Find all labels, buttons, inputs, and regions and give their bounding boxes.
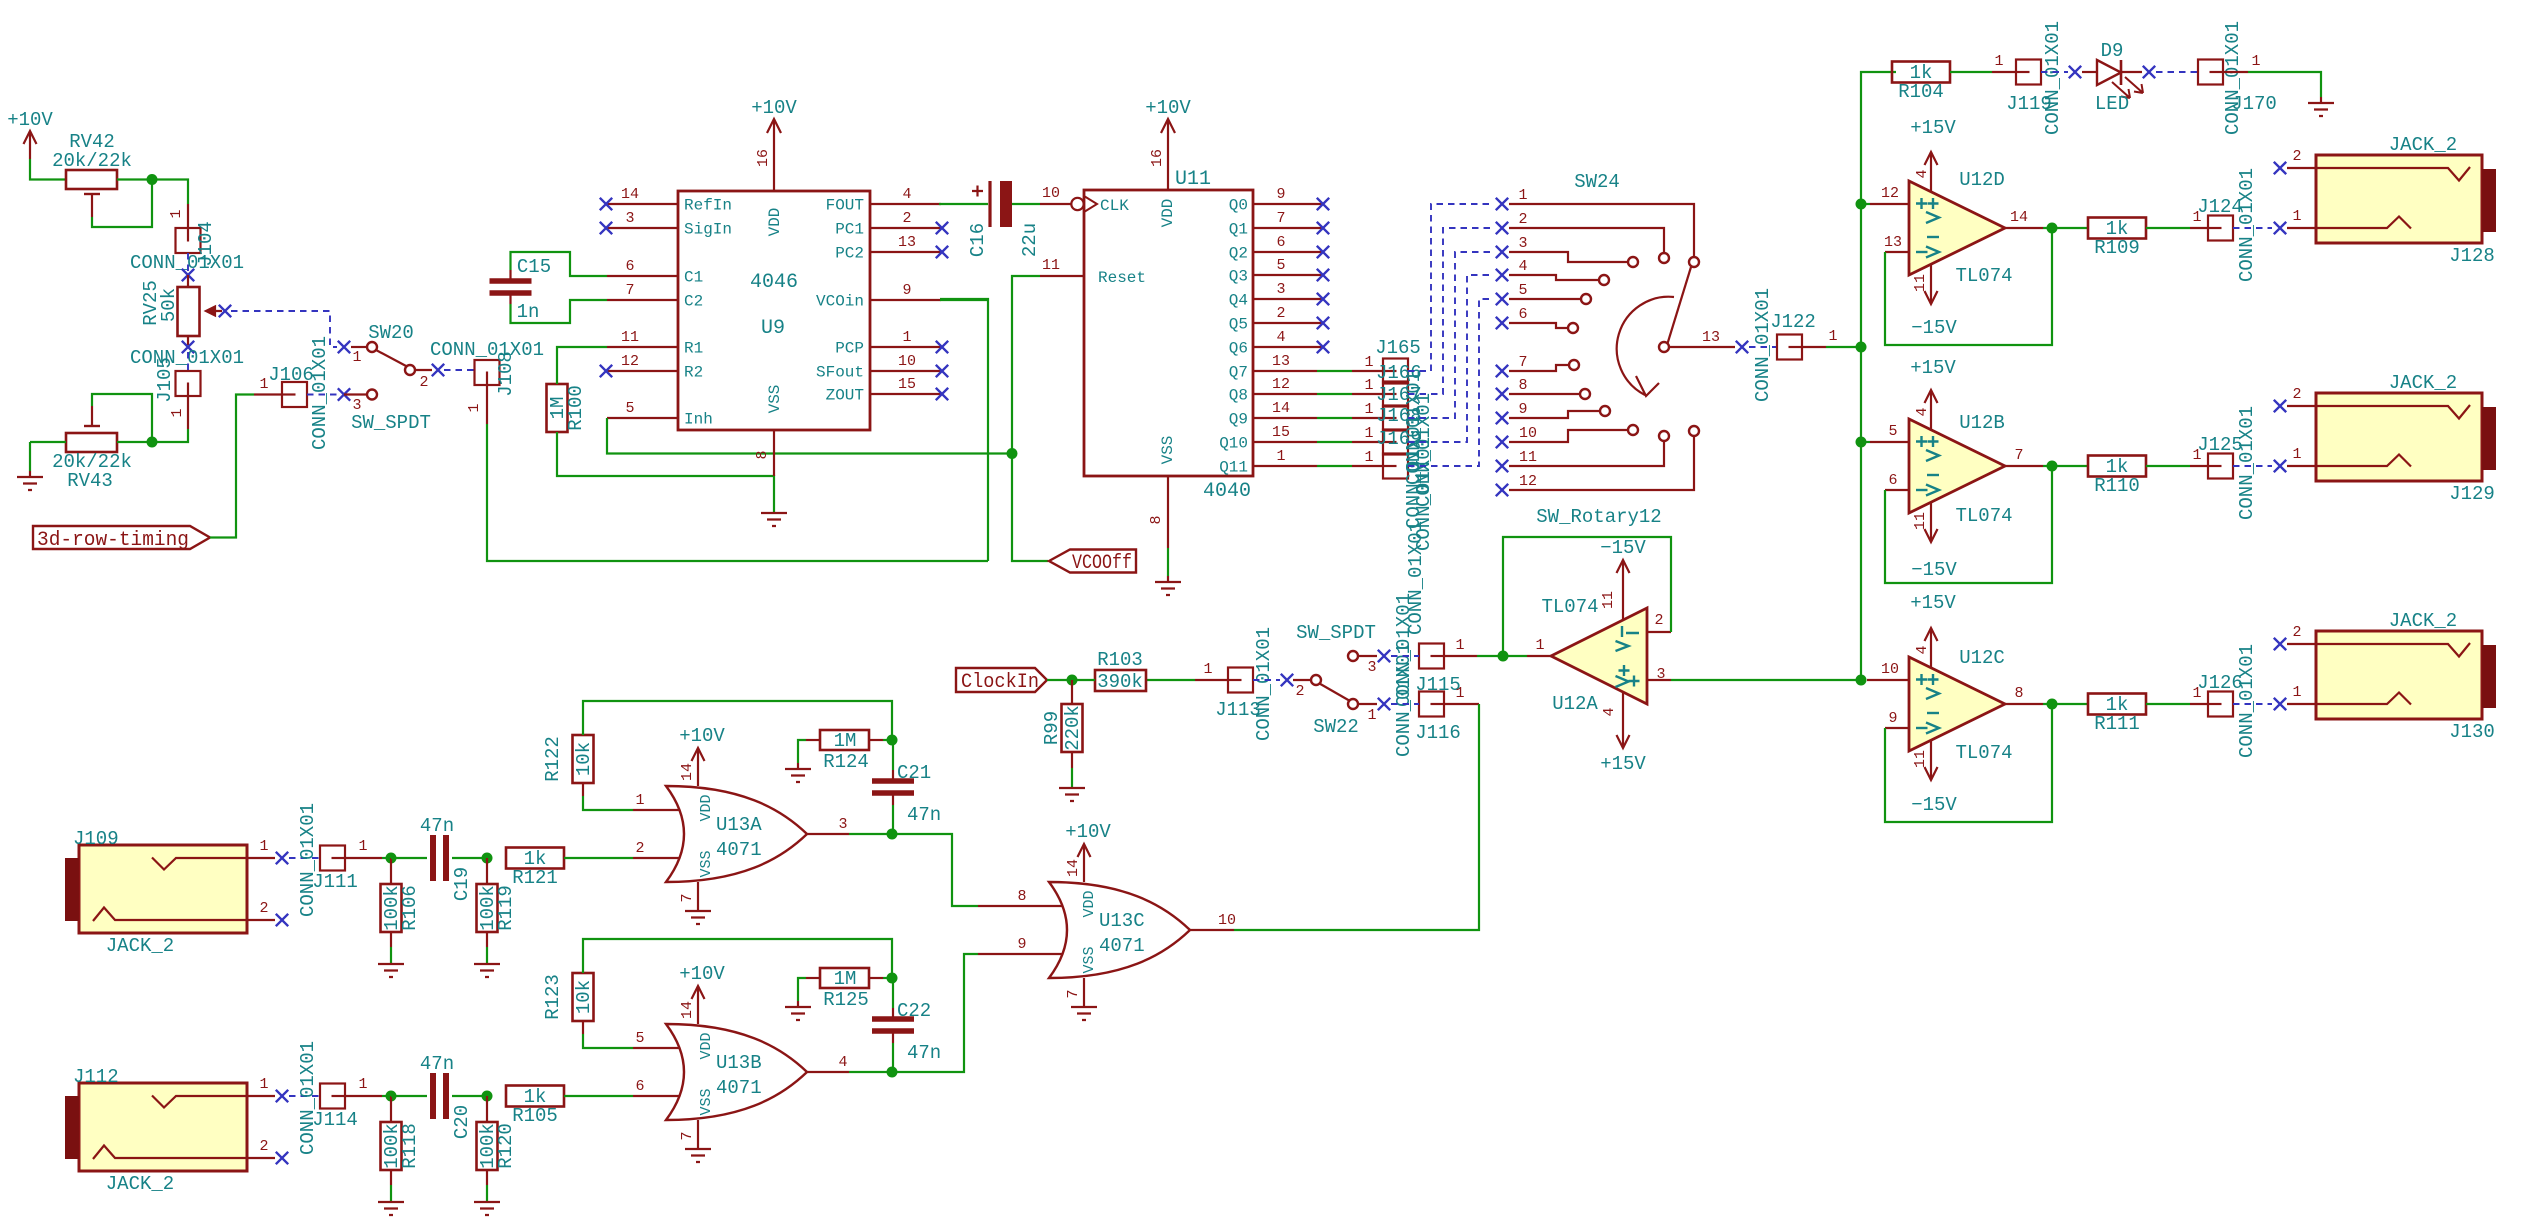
op-amp U12C [1909, 657, 2005, 751]
svg-text:R122: R122 [542, 736, 564, 782]
svg-text:1: 1 [1994, 53, 2003, 70]
connector J167 [1383, 406, 1408, 431]
diode D9 LED [2082, 71, 2097, 73]
svg-text:10k: 10k [573, 980, 595, 1014]
wire [798, 978, 806, 1001]
svg-text:−15V: −15V [1911, 317, 1957, 339]
IC U11 4040 [1084, 190, 1253, 476]
connector J122 [1749, 346, 1777, 348]
svg-text:+10V: +10V [679, 725, 725, 747]
wire [1012, 203, 1040, 205]
SW24 position 9 [1496, 412, 1508, 424]
U11 pin 10 CLK [1040, 203, 1071, 205]
svg-text:14: 14 [1272, 400, 1290, 417]
junction [2047, 699, 2058, 710]
svg-text:ClockIn: ClockIn [961, 671, 1039, 694]
U12D feedback wire [1885, 228, 2052, 345]
dashed [1391, 703, 1419, 705]
svg-text:R104: R104 [1898, 81, 1944, 103]
connector J114 [289, 1095, 320, 1097]
junction [887, 735, 898, 746]
svg-text:CONN_01X01: CONN_01X01 [1752, 288, 1774, 402]
U12A pin 2 -in [1647, 631, 1671, 633]
svg-text:JACK_2: JACK_2 [106, 1173, 174, 1195]
SW24 position 4 [1496, 269, 1508, 281]
svg-text:SigIn: SigIn [684, 221, 732, 239]
U12C pin 11 -15V [1930, 740, 1932, 780]
resistor R105 [506, 1086, 564, 1107]
svg-text:U12C: U12C [1959, 647, 2005, 669]
dashed net [1408, 228, 1494, 394]
U13B pin 7 VSS [697, 1120, 699, 1149]
svg-text:7: 7 [1065, 989, 1082, 998]
svg-text:15: 15 [1272, 424, 1290, 441]
svg-text:R109: R109 [2094, 237, 2140, 259]
svg-text:47n: 47n [907, 1042, 941, 1064]
svg-text:D9: D9 [2101, 40, 2124, 62]
U11 pin 11 Reset [1040, 275, 1084, 277]
svg-text:1: 1 [1518, 187, 1527, 204]
jack J130 pin2 [2274, 638, 2286, 650]
SW24 position 8 [1496, 388, 1508, 400]
svg-text:5: 5 [625, 400, 634, 417]
svg-text:8: 8 [2014, 685, 2023, 702]
connector J119 [1992, 71, 2016, 73]
ground [685, 1149, 711, 1162]
resistor R99 [1071, 680, 1073, 704]
svg-text:47n: 47n [420, 1053, 454, 1075]
connector J125 [2190, 465, 2208, 467]
svg-text:2: 2 [902, 210, 911, 227]
wire [2043, 465, 2088, 467]
resistor R123 [573, 973, 594, 1021]
svg-text:1: 1 [1455, 637, 1464, 654]
junction [2047, 461, 2058, 472]
svg-text:14: 14 [2010, 209, 2028, 226]
wire [117, 441, 152, 443]
svg-text:C1: C1 [684, 269, 703, 287]
svg-text:+15V: +15V [1600, 753, 1646, 775]
svg-text:4046: 4046 [750, 271, 798, 294]
svg-text:TL074: TL074 [1541, 596, 1598, 618]
U13C pin 14 VDD +10V [1083, 844, 1085, 882]
svg-text:1: 1 [1364, 377, 1373, 394]
jack J112 [79, 1083, 247, 1171]
svg-text:R100: R100 [565, 385, 587, 431]
svg-text:Q9: Q9 [1229, 411, 1248, 429]
capacitor C21 [892, 740, 894, 770]
U9 pin 5 Inh [607, 417, 678, 419]
svg-text:Q3: Q3 [1229, 268, 1248, 286]
U9 pin 10 SFout [870, 370, 941, 372]
ground [29, 471, 31, 477]
junction [1856, 342, 1867, 353]
ground [474, 1202, 500, 1215]
jack J129 [2316, 393, 2482, 481]
U12D pin 13 -in [1885, 251, 1909, 253]
svg-text:10: 10 [898, 353, 916, 370]
wire [557, 347, 607, 384]
wire [1072, 679, 1095, 681]
svg-text:VSS: VSS [698, 1088, 715, 1115]
U13C pin 8 [978, 905, 1063, 907]
svg-text:10k: 10k [573, 742, 595, 776]
svg-text:R105: R105 [512, 1105, 558, 1127]
svg-text:U11: U11 [1175, 168, 1211, 191]
svg-text:CONN_01X01: CONN_01X01 [430, 339, 544, 361]
svg-text:+10V: +10V [679, 963, 725, 985]
wire [1146, 679, 1195, 681]
svg-text:CONN_01X01: CONN_01X01 [130, 347, 244, 369]
svg-text:J114: J114 [312, 1109, 358, 1131]
connector J165 [1383, 359, 1408, 384]
svg-text:1: 1 [352, 349, 361, 366]
ground [797, 763, 799, 769]
SW24 position 2 [1496, 222, 1508, 234]
wire [2146, 703, 2190, 705]
U12B pin 7 out [2005, 465, 2043, 467]
potentiometer RV42 [66, 170, 117, 189]
jack J109 pin1 [247, 857, 275, 859]
svg-text:1: 1 [259, 838, 268, 855]
junction [482, 1091, 493, 1102]
svg-text:47n: 47n [420, 815, 454, 837]
svg-text:R106: R106 [399, 885, 421, 931]
svg-text:CONN_01X01: CONN_01X01 [2236, 406, 2258, 520]
svg-text:CONN_01X01: CONN_01X01 [2236, 644, 2258, 758]
svg-text:R121: R121 [512, 867, 558, 889]
svg-text:22u: 22u [1019, 223, 1041, 257]
connector J104 [187, 204, 189, 228]
hier label 3d-row-timing [33, 526, 210, 549]
no-connect [187, 253, 189, 272]
svg-text:2: 2 [1654, 612, 1663, 629]
svg-text:1: 1 [358, 838, 367, 855]
dashed [444, 369, 474, 371]
potentiometer RV25 [187, 275, 189, 287]
junction [386, 1091, 397, 1102]
resistor R125 [820, 968, 869, 988]
svg-text:CLK: CLK [1100, 197, 1129, 215]
svg-text:11: 11 [1600, 591, 1617, 609]
U12C pin 8 out [2005, 703, 2043, 705]
svg-text:PC2: PC2 [835, 245, 864, 263]
U13B pin 4 out [807, 1071, 849, 1073]
svg-text:Q10: Q10 [1219, 435, 1248, 453]
op-amp U12D [1909, 181, 2005, 275]
U12D pin 11 -15V [1930, 264, 1932, 304]
ground [378, 1202, 404, 1215]
resistor R124 [820, 730, 869, 750]
junction [1856, 675, 1867, 686]
junction [1856, 437, 1867, 448]
U13C pin 9 [978, 953, 1063, 955]
svg-text:+10V: +10V [7, 109, 53, 131]
svg-text:12: 12 [1519, 473, 1537, 490]
svg-text:7: 7 [679, 1131, 696, 1140]
svg-text:6: 6 [635, 1078, 644, 1095]
svg-text:7: 7 [679, 893, 696, 902]
wire [511, 300, 608, 323]
svg-text:1: 1 [1455, 685, 1464, 702]
dashed [1253, 679, 1280, 681]
svg-text:−15V: −15V [1911, 559, 1957, 581]
wire [2146, 465, 2190, 467]
svg-text:2: 2 [419, 374, 428, 391]
svg-text:VDD: VDD [1081, 890, 1098, 917]
wire [2248, 72, 2321, 97]
svg-text:13: 13 [898, 234, 916, 251]
svg-text:8: 8 [1017, 888, 1026, 905]
U12D pin 4 +15V [1930, 152, 1932, 192]
U13C pin 7 VSS [1083, 978, 1085, 1007]
svg-text:5: 5 [1276, 257, 1285, 274]
svg-text:+15V: +15V [1910, 357, 1956, 379]
svg-text:C21: C21 [897, 762, 931, 784]
U13A pin 3 out [807, 833, 849, 835]
U9 pin 1 PCP [870, 346, 941, 348]
wire R122 bottom [582, 783, 584, 796]
svg-text:U9: U9 [761, 317, 785, 340]
svg-text:R119: R119 [495, 885, 517, 931]
U12B pin 5 +in [1870, 441, 1909, 443]
wire [210, 395, 254, 538]
U9 pin 15 ZOUT [870, 393, 941, 395]
svg-text:1: 1 [635, 792, 644, 809]
svg-text:1: 1 [1364, 354, 1373, 371]
U13A pin 2 [633, 857, 680, 859]
svg-text:SW24: SW24 [1574, 171, 1620, 193]
junction [482, 853, 493, 864]
svg-text:CONN_01X01: CONN_01X01 [2042, 21, 2064, 135]
svg-text:12: 12 [621, 353, 639, 370]
svg-text:+15V: +15V [1910, 117, 1956, 139]
svg-text:Q8: Q8 [1229, 387, 1248, 405]
svg-text:16: 16 [1149, 149, 1166, 167]
wire [29, 442, 31, 471]
U13A pin 14 VDD +10V [697, 748, 699, 786]
svg-text:RV43: RV43 [67, 470, 113, 492]
svg-text:10: 10 [1218, 912, 1236, 929]
svg-text:14: 14 [679, 1001, 696, 1019]
U11 Reset wire [1012, 276, 1040, 454]
wire [92, 394, 152, 442]
svg-text:1: 1 [2292, 684, 2301, 701]
svg-text:4: 4 [1518, 258, 1527, 275]
jack J109 [79, 845, 247, 933]
wire [152, 429, 188, 442]
U9 pin 13 PC2 [870, 251, 941, 253]
U12B feedback wire [1885, 466, 2052, 583]
svg-text:1: 1 [1535, 637, 1544, 654]
connector J113 [1228, 668, 1253, 693]
svg-text:SFout: SFout [816, 364, 864, 382]
IC U9 4046 [678, 191, 870, 430]
dashed [1391, 655, 1419, 657]
connector J124 [2190, 227, 2208, 229]
U11 VDD pin 16 [1167, 120, 1169, 190]
svg-text:J112: J112 [73, 1066, 119, 1088]
SW24 common pin 13 [1659, 342, 1669, 352]
hier label VCOOff [1049, 550, 1136, 573]
svg-text:U13C: U13C [1099, 910, 1145, 932]
svg-text:U13B: U13B [716, 1052, 762, 1074]
svg-text:VDD: VDD [1159, 199, 1177, 228]
connector J111 [289, 857, 320, 859]
gate U13C [1049, 882, 1190, 978]
resistor R122 [573, 735, 594, 783]
wire [798, 740, 806, 763]
SW24 position 7 [1496, 365, 1508, 377]
svg-text:JACK_2: JACK_2 [2389, 372, 2457, 394]
wire [2043, 227, 2088, 229]
svg-text:1: 1 [2292, 208, 2301, 225]
jack J128 pin2 [2274, 162, 2286, 174]
wire [487, 424, 988, 561]
svg-text:10: 10 [1042, 185, 1060, 202]
svg-text:1: 1 [259, 1076, 268, 1093]
svg-text:1: 1 [358, 1076, 367, 1093]
svg-text:J116: J116 [1415, 722, 1461, 744]
svg-text:CONN_01X01: CONN_01X01 [297, 803, 319, 917]
jack J112 pin1 [247, 1095, 275, 1097]
U9 pin 9 VCOin [870, 299, 941, 301]
svg-text:J115: J115 [1415, 674, 1461, 696]
svg-text:2: 2 [2292, 148, 2301, 165]
svg-text:3: 3 [352, 397, 361, 414]
op-amp U12A [1551, 608, 1647, 704]
wire [30, 441, 66, 443]
U13A pin 1 [633, 809, 680, 811]
U13B pin 6 [633, 1095, 680, 1097]
U11 VSS pin 8 [1167, 476, 1169, 548]
svg-text:7: 7 [625, 282, 634, 299]
svg-text:390k: 390k [1097, 671, 1143, 693]
ground [1155, 582, 1181, 595]
resistor R103 [1095, 670, 1146, 691]
svg-text:4: 4 [1914, 407, 1931, 416]
SW24 position 6 [1496, 317, 1508, 329]
wire [1047, 679, 1072, 681]
svg-text:VDD: VDD [698, 794, 715, 821]
junction [147, 437, 158, 448]
wire [564, 857, 633, 859]
svg-text:7: 7 [1518, 354, 1527, 371]
junction [887, 1067, 898, 1078]
U9 pin 6 C1 [607, 275, 678, 277]
potentiometer RV43 [66, 433, 117, 452]
junction [1856, 199, 1867, 210]
svg-text:4071: 4071 [716, 1077, 762, 1099]
svg-text:U12D: U12D [1959, 169, 2005, 191]
svg-text:10: 10 [1519, 425, 1537, 442]
svg-text:+10V: +10V [1065, 821, 1111, 843]
svg-text:R125: R125 [823, 989, 869, 1011]
wire [2043, 703, 2088, 705]
svg-text:4: 4 [1914, 169, 1931, 178]
svg-text:FOUT: FOUT [826, 197, 864, 215]
svg-text:C19: C19 [451, 867, 473, 901]
U9 Inh wire [607, 418, 1012, 454]
svg-text:5: 5 [635, 1030, 644, 1047]
svg-text:10: 10 [1881, 661, 1899, 678]
wire [940, 299, 988, 561]
svg-text:6: 6 [1518, 306, 1527, 323]
U12C pin 10 +in [1867, 679, 1909, 681]
svg-text:1: 1 [466, 403, 483, 412]
connector J170 [2156, 71, 2198, 73]
capacitor C22 [892, 978, 894, 1008]
junction [1067, 675, 1078, 686]
svg-text:J129: J129 [2449, 483, 2495, 505]
svg-text:CONN_01X01: CONN_01X01 [309, 336, 331, 450]
dashed [307, 394, 337, 396]
U13A pin 7 VSS [697, 882, 699, 911]
gate U13A [666, 786, 807, 882]
svg-text:4071: 4071 [1099, 935, 1145, 957]
svg-text:16: 16 [755, 149, 772, 167]
svg-text:1M: 1M [834, 730, 857, 752]
SW24 position 10 [1496, 436, 1508, 448]
svg-text:1: 1 [2292, 446, 2301, 463]
svg-text:1: 1 [1364, 401, 1373, 418]
SW24 position 5 [1496, 293, 1508, 305]
SW24 position 11 [1496, 460, 1508, 472]
SW24 position 12 [1496, 484, 1508, 496]
jack J129 pin1 [2287, 465, 2316, 467]
svg-text:50k: 50k [158, 288, 180, 322]
ground [2320, 97, 2322, 103]
U12A feedback wire [1503, 537, 1671, 656]
wire [30, 159, 66, 180]
svg-text:6: 6 [1276, 234, 1285, 251]
svg-text:C20: C20 [451, 1105, 473, 1139]
resistor R111 [2088, 694, 2146, 715]
wire [382, 857, 391, 859]
jack J130 [2316, 631, 2482, 719]
resistor R100 [547, 384, 568, 432]
svg-text:13: 13 [1702, 329, 1720, 346]
svg-text:SW_SPDT: SW_SPDT [351, 412, 431, 434]
wire [1950, 71, 1992, 73]
svg-text:J128: J128 [2449, 245, 2495, 267]
svg-text:9: 9 [902, 282, 911, 299]
connector J169 [1383, 454, 1408, 479]
wire U13C out to J116 [1234, 704, 1479, 930]
connector J105 [187, 352, 189, 371]
jack J128 [2316, 155, 2482, 243]
bus wire [1861, 72, 1896, 680]
capacitor C19 [391, 857, 427, 859]
svg-text:3: 3 [838, 816, 847, 833]
svg-text:J122: J122 [1770, 311, 1816, 333]
svg-text:Q0: Q0 [1229, 197, 1248, 215]
svg-text:SW_SPDT: SW_SPDT [1296, 622, 1376, 644]
junction [386, 853, 397, 864]
svg-text:20k/22k: 20k/22k [52, 150, 132, 172]
svg-text:1M: 1M [834, 968, 857, 990]
wire [849, 1071, 892, 1073]
svg-text:SW22: SW22 [1313, 716, 1359, 738]
svg-text:4: 4 [1601, 707, 1618, 716]
svg-text:SW20: SW20 [368, 322, 414, 344]
wire R122 top [583, 701, 892, 740]
svg-text:LED: LED [2095, 93, 2129, 115]
U12D pin 12 +in [1870, 203, 1909, 205]
svg-text:J130: J130 [2449, 721, 2495, 743]
svg-text:11: 11 [1042, 257, 1060, 274]
svg-text:CONN_01X01: CONN_01X01 [130, 252, 244, 274]
